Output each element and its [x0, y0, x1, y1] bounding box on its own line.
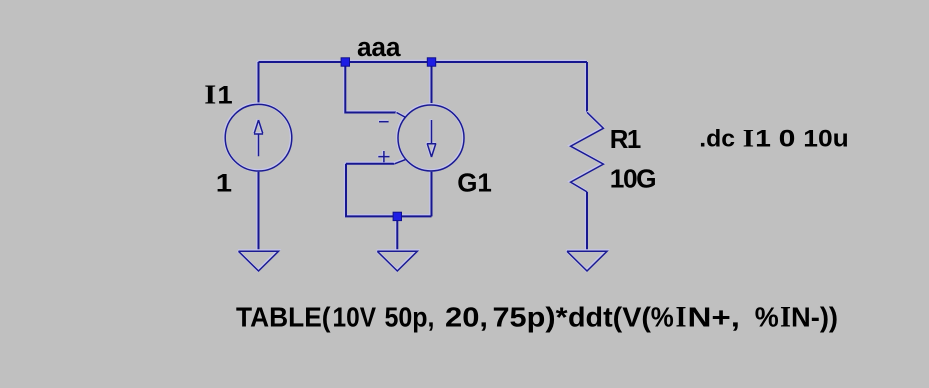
svg-text:1: 1 [216, 170, 233, 197]
svg-text:R1: R1 [610, 126, 642, 154]
svg-text:20,: 20, [445, 302, 488, 333]
svg-text:aaa: aaa [357, 32, 401, 62]
svg-text:%: % [755, 302, 779, 333]
svg-text:1: 1 [755, 126, 771, 153]
svg-text:N-)): N-)) [791, 302, 838, 333]
svg-text:N+,: N+, [688, 302, 741, 333]
svg-text:I: I [676, 300, 687, 334]
svg-text:.dc: .dc [699, 126, 735, 153]
svg-text:1: 1 [217, 82, 232, 110]
svg-text:G1: G1 [457, 167, 492, 197]
svg-text:75p)*: 75p)* [493, 302, 568, 333]
svg-text:TABLE(: TABLE( [236, 302, 331, 333]
svg-text:I: I [780, 300, 791, 334]
svg-text:ddt(V(: ddt(V( [568, 302, 652, 333]
svg-text:I: I [204, 80, 216, 110]
svg-text:10G: 10G [610, 163, 657, 193]
svg-text:50p,: 50p, [385, 302, 435, 333]
svg-text:10V: 10V [333, 302, 377, 333]
svg-text:10u: 10u [803, 126, 849, 153]
svg-text:0: 0 [779, 126, 796, 153]
svg-text:%: % [651, 302, 674, 333]
svg-text:I: I [743, 124, 755, 153]
